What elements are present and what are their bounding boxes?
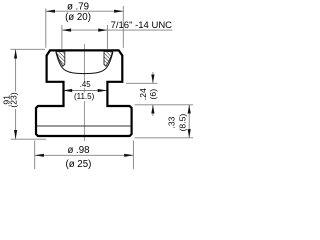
left thread hatch patch — [56, 52, 65, 67]
svg-text:(ø 25): (ø 25) — [65, 159, 91, 170]
dimension .33 line — [188, 105, 190, 138]
.24 top extension line — [126, 82, 157, 84]
svg-text:(8.5): (8.5) — [177, 114, 187, 132]
svg-text:ø .98: ø .98 — [67, 145, 89, 156]
dimension ø.98 line — [35, 154, 134, 156]
.24 upper arrow — [152, 72, 154, 83]
.24 lower arrow — [152, 105, 154, 116]
svg-text:.33: .33 — [167, 116, 177, 128]
svg-text:(ø 20): (ø 20) — [65, 12, 91, 23]
svg-text:(11.5): (11.5) — [74, 92, 95, 101]
dimension .45 line — [63, 90, 107, 92]
svg-text:(6): (6) — [148, 89, 158, 100]
dimension ø.79 line — [46, 10, 124, 12]
right thread hatch patch — [104, 52, 113, 67]
centerline — [83, 44, 85, 141]
dimension ø.79 extension lines — [45, 9, 47, 48]
svg-text:ø .79: ø .79 — [67, 1, 89, 12]
wire: .91 bottom extension line — [11, 138, 47, 140]
wire: .91 top extension line — [11, 48, 45, 50]
cylinder thin mid line — [37, 125, 132, 127]
thread dim extension lines — [61, 25, 63, 49]
spherical cup curve — [56, 52, 113, 74]
part body outline — [36, 50, 132, 136]
dimension .91 (23) vertical line — [15, 49, 17, 139]
svg-text:.24: .24 — [138, 88, 148, 100]
svg-text:.45: .45 — [80, 80, 92, 89]
svg-text:(23): (23) — [8, 92, 18, 107]
ø.98 extension lines — [34, 141, 36, 170]
svg-text:7/16" -14 UNC: 7/16" -14 UNC — [111, 20, 173, 31]
.33 top extension line (cylinder top) — [135, 104, 194, 106]
thread dimension line + note underline — [62, 29, 172, 31]
.33 bottom extension line — [135, 137, 194, 139]
